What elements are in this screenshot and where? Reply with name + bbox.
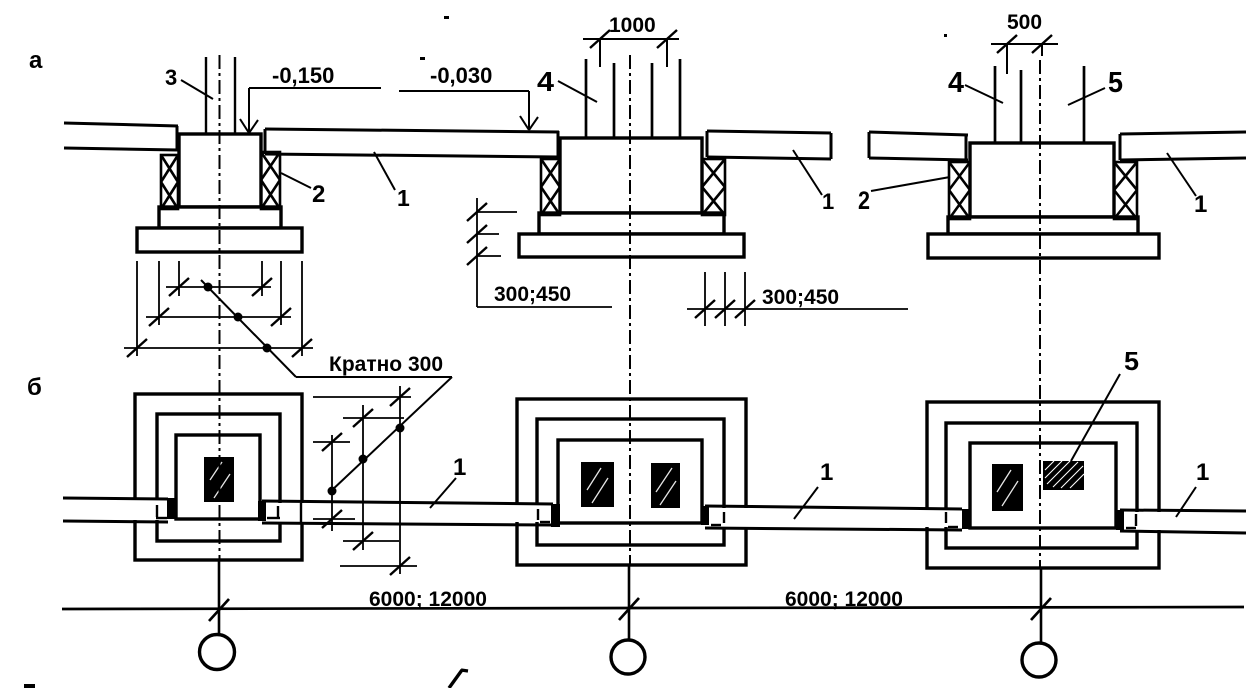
svg-text:Кратно 300: Кратно 300 [329,353,443,376]
svg-text:4: 4 [948,67,964,99]
svg-text:6000; 12000: 6000; 12000 [785,588,903,611]
svg-text:1: 1 [453,454,466,481]
svg-text:1: 1 [822,189,834,214]
svg-text:2: 2 [858,187,870,215]
svg-text:б: б [27,374,42,401]
svg-text:300;450: 300;450 [494,283,571,306]
svg-text:1: 1 [820,459,833,486]
svg-text:1000: 1000 [609,14,656,37]
svg-text:1: 1 [397,185,410,211]
svg-text:4: 4 [537,66,554,97]
svg-text:300;450: 300;450 [762,286,839,309]
svg-text:а: а [29,47,43,74]
svg-text:2: 2 [312,181,325,208]
svg-text:1: 1 [1196,459,1209,486]
svg-text:6000; 12000: 6000; 12000 [369,588,487,611]
svg-text:-0,030: -0,030 [430,63,492,88]
svg-text:-0,150: -0,150 [272,63,334,88]
svg-text:3: 3 [165,65,177,90]
svg-text:5: 5 [1124,346,1139,376]
svg-text:500: 500 [1007,11,1042,34]
svg-text:5: 5 [1108,67,1123,99]
